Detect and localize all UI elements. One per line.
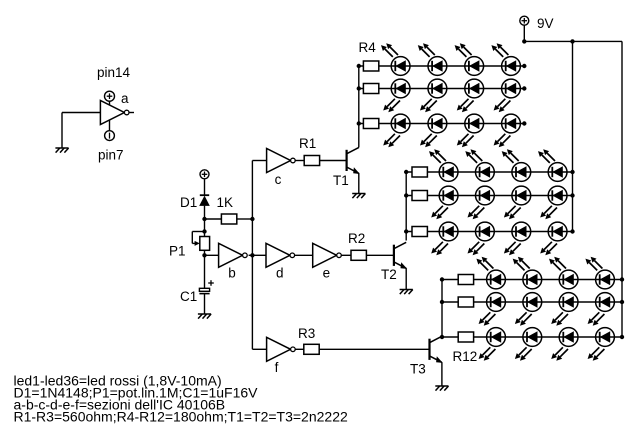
LED led2 — [428, 57, 447, 76]
LED led11 light arrows — [457, 134, 474, 147]
node bank3 row3 right — [620, 335, 624, 339]
wire bank3 row2 — [442, 301, 622, 303]
wire T2 emitter to ground — [405, 268, 407, 289]
ground (T3) — [435, 386, 448, 391]
LED led24 light arrows — [540, 242, 557, 255]
wire feedback vertical line — [251, 161, 253, 350]
LED led31 light arrows — [551, 312, 568, 325]
LED led20 — [548, 186, 567, 205]
LED led6 light arrows — [420, 99, 437, 112]
node rail/bank2 junction — [570, 39, 574, 43]
ground (inverter a input) — [55, 148, 68, 153]
wire pin14 to inverter a — [109, 101, 111, 106]
wire e to R2 — [341, 254, 351, 256]
capacitor C1 — [199, 280, 213, 293]
LED led23 — [512, 222, 531, 241]
svg-text:1K: 1K — [217, 195, 234, 210]
node bank2 row2 right — [570, 193, 574, 197]
svg-text:R3: R3 — [298, 326, 315, 341]
svg-text:pin14: pin14 — [97, 65, 131, 80]
diode D1 — [199, 195, 210, 206]
op-amp U1: inverter b — [219, 243, 248, 267]
svg-text:c: c — [275, 172, 282, 187]
LED led5 light arrows — [383, 99, 400, 112]
svg-text:R12: R12 — [453, 349, 478, 364]
LED led33 — [487, 328, 506, 347]
wire P1 to inverter b input node — [204, 250, 206, 288]
svg-text:b: b — [228, 266, 236, 281]
LED led1 — [391, 57, 410, 76]
resistor bank2 row2 — [412, 191, 427, 201]
node bank1 row3 left — [357, 121, 361, 125]
node bank1 row1 left — [357, 64, 361, 68]
LED led32 — [596, 293, 615, 312]
LED led4 — [502, 57, 521, 76]
LED led24 — [548, 222, 567, 241]
node bank1 row3 right — [522, 121, 526, 125]
node bank1 row2 left — [357, 86, 361, 90]
LED led9 — [391, 114, 410, 133]
node bank3 row2 left — [440, 300, 444, 304]
LED led7 light arrows — [457, 99, 474, 112]
LED led18 light arrows — [468, 206, 485, 219]
resistor 1K — [221, 214, 236, 224]
node bank3 row3 left — [440, 335, 444, 339]
LED led12 — [502, 114, 521, 133]
resistor R2 — [351, 250, 366, 260]
LED led34 light arrows — [515, 347, 532, 360]
wire bank3 left bus — [441, 280, 443, 338]
op-amp U1: inverter f — [267, 337, 296, 361]
LED led9 light arrows — [383, 134, 400, 147]
wire rail to bank2 right bus — [572, 41, 574, 231]
svg-text:C1: C1 — [180, 289, 197, 304]
wire bank1 row1 — [359, 65, 525, 67]
wire inverter a input — [62, 112, 100, 114]
power symbol + (supply to D1) — [200, 170, 209, 179]
op-amp U1: inverter e — [313, 243, 342, 267]
transistor T3 — [430, 336, 443, 363]
LED led3 light arrows — [455, 43, 472, 57]
wire supply to D1 — [204, 179, 206, 195]
node bank2 row1 left — [404, 170, 408, 174]
svg-text:R2: R2 — [348, 231, 365, 246]
resistor bank3 row2 — [458, 297, 473, 307]
wire T1 emitter to ground — [358, 173, 360, 193]
node P1/C1/b-input junction — [202, 253, 206, 257]
svg-text:R4: R4 — [359, 40, 377, 55]
LED led8 — [502, 79, 521, 98]
LED led26 — [523, 270, 542, 289]
LED led16 — [548, 163, 567, 182]
wire inverter a output stub — [129, 112, 134, 114]
LED led25 light arrows — [476, 257, 493, 271]
LED led22 light arrows — [468, 242, 485, 255]
LED led30 — [523, 293, 542, 312]
LED led12 light arrows — [494, 134, 511, 147]
wire D1 to node — [204, 206, 206, 219]
LED led29 light arrows — [479, 312, 496, 325]
ground (C1) — [198, 314, 211, 319]
LED led34 — [523, 328, 542, 347]
wire down to ground — [61, 113, 63, 149]
svg-text:T2: T2 — [381, 267, 397, 282]
LED led19 light arrows — [504, 206, 521, 219]
resistor R3 — [304, 344, 319, 354]
wire bank3 row3 — [442, 336, 622, 338]
node 1K/feedback junction — [250, 217, 254, 221]
potentiometer P1 — [192, 232, 209, 251]
resistor bank3 row1 — [458, 275, 473, 285]
LED led30 light arrows — [515, 312, 532, 325]
LED led26 light arrows — [513, 257, 530, 271]
LED led5 — [391, 79, 410, 98]
wire feedback to inverter c — [252, 160, 266, 162]
wire T3 emitter to ground — [441, 362, 443, 386]
wire node down to P1 — [204, 219, 206, 237]
LED led29 — [487, 293, 506, 312]
resistor bank2 row3 — [412, 227, 427, 237]
svg-text:e: e — [323, 266, 331, 281]
svg-text:D1: D1 — [180, 195, 197, 210]
wire bank1 left bus — [358, 66, 360, 147]
LED led36 — [596, 328, 615, 347]
wire bank2 left bus — [405, 172, 407, 241]
LED led22 — [476, 222, 495, 241]
wire node to inverter d — [252, 254, 266, 256]
wire bank1 row2 — [359, 88, 525, 90]
wire f to R3 — [295, 348, 304, 350]
svg-text:R1-R3=560ohm;R4-R12=180ohm;T1=: R1-R3=560ohm;R4-R12=180ohm;T1=T2=T3=2n22… — [14, 409, 348, 425]
op-amp U1: inverter c — [267, 149, 296, 173]
wire supply rail — [524, 40, 622, 42]
LED led13 light arrows — [429, 149, 446, 163]
LED led4 light arrows — [491, 43, 508, 57]
wire R3 to T3 base — [319, 348, 429, 350]
LED led36 light arrows — [588, 347, 605, 360]
LED led31 — [559, 293, 578, 312]
LED led2 light arrows — [418, 43, 435, 57]
node bank2 row3 left — [404, 229, 408, 233]
wire rail to bank3 right bus — [621, 41, 623, 337]
resistor R1 — [304, 156, 319, 166]
LED led35 light arrows — [551, 347, 568, 360]
node bank1 row1 right — [522, 64, 526, 68]
LED led1 light arrows — [381, 43, 398, 57]
ground (T2) — [400, 290, 413, 295]
LED led23 light arrows — [504, 242, 521, 255]
transistor T2 — [394, 242, 407, 269]
LED led28 light arrows — [585, 257, 602, 271]
resistor bank3 row3 — [458, 332, 473, 342]
op-amp U1: inverter a (IC power section) — [100, 101, 129, 125]
LED led18 — [476, 186, 495, 205]
wire inverter a to pin7 circle — [109, 120, 111, 131]
LED led10 light arrows — [420, 134, 437, 147]
resistor bank1 row2 — [363, 84, 378, 94]
wire feedback to inverter f — [252, 348, 266, 350]
LED led17 light arrows — [431, 206, 448, 219]
node rail/bank1 junction — [522, 39, 526, 43]
LED led27 light arrows — [549, 257, 566, 271]
LED led25 — [487, 270, 506, 289]
LED led3 — [465, 57, 484, 76]
node bank2 row3 right — [570, 229, 574, 233]
node D1/1K/P1 junction — [202, 217, 206, 221]
node P1 wiper tie — [202, 229, 206, 233]
svg-text:T1: T1 — [333, 173, 349, 188]
LED led35 — [559, 328, 578, 347]
node bank2 row2 left — [404, 193, 408, 197]
power symbol + (pin14) — [105, 91, 115, 101]
svg-text:a: a — [121, 91, 129, 106]
LED led33 light arrows — [479, 347, 496, 360]
resistor bank1 row3 — [363, 119, 378, 129]
LED led27 — [559, 270, 578, 289]
power symbol + 9V — [520, 16, 529, 25]
node bank3 row1 left — [440, 277, 444, 281]
LED led13 — [439, 163, 458, 182]
resistor bank2 row1 — [412, 167, 427, 177]
node bank3 row2 right — [620, 300, 624, 304]
ground (T1) — [352, 194, 365, 199]
LED led11 — [465, 114, 484, 133]
wire 1K to feedback line — [237, 218, 253, 220]
resistor bank1 row1 R4 — [363, 61, 378, 71]
LED led7 — [465, 79, 484, 98]
op-amp U1: inverter d — [266, 243, 295, 267]
LED led20 light arrows — [540, 206, 557, 219]
wire R2 to T2 base — [366, 254, 394, 256]
LED led32 light arrows — [588, 312, 605, 325]
svg-text:9V: 9V — [537, 16, 554, 31]
LED led21 — [439, 222, 458, 241]
wire bank2 row3 — [406, 231, 572, 233]
LED led14 — [476, 163, 495, 182]
node bank3 row1 right — [620, 277, 624, 281]
wire node to 1K resistor — [205, 218, 222, 220]
wire node to inverter b — [205, 254, 219, 256]
LED led14 light arrows — [465, 149, 482, 163]
node bank2 row1 right — [570, 170, 574, 174]
wire bank2 row2 — [406, 195, 572, 197]
LED led17 — [439, 186, 458, 205]
transistor T1 — [347, 147, 360, 174]
LED led15 light arrows — [502, 149, 519, 163]
power symbol - (pin7) — [105, 131, 115, 141]
node b output junction — [250, 253, 254, 257]
svg-text:P1: P1 — [169, 244, 186, 259]
LED led10 — [428, 114, 447, 133]
LED led28 — [596, 270, 615, 289]
LED led6 — [428, 79, 447, 98]
wire b output to node — [249, 254, 253, 256]
svg-text:f: f — [275, 360, 279, 375]
wire d to e — [295, 254, 313, 256]
node bank1 row2 right — [522, 86, 526, 90]
wire C1 to ground — [204, 294, 206, 314]
LED led19 — [512, 186, 531, 205]
wire c to R1 — [295, 160, 304, 162]
svg-text:R1: R1 — [299, 136, 316, 151]
LED led8 light arrows — [494, 99, 511, 112]
wire bank3 row1 — [442, 279, 622, 281]
LED led15 — [512, 163, 531, 182]
svg-text:pin7: pin7 — [98, 148, 124, 163]
wire bank2 row1 — [406, 171, 572, 173]
svg-text:T3: T3 — [410, 362, 426, 377]
wire R1 to T1 base — [320, 160, 347, 162]
LED led16 light arrows — [538, 149, 555, 163]
wire 9V to rail — [523, 25, 525, 41]
LED led21 light arrows — [431, 242, 448, 255]
wire bank1 row3 — [359, 123, 525, 125]
svg-text:d: d — [276, 266, 284, 281]
